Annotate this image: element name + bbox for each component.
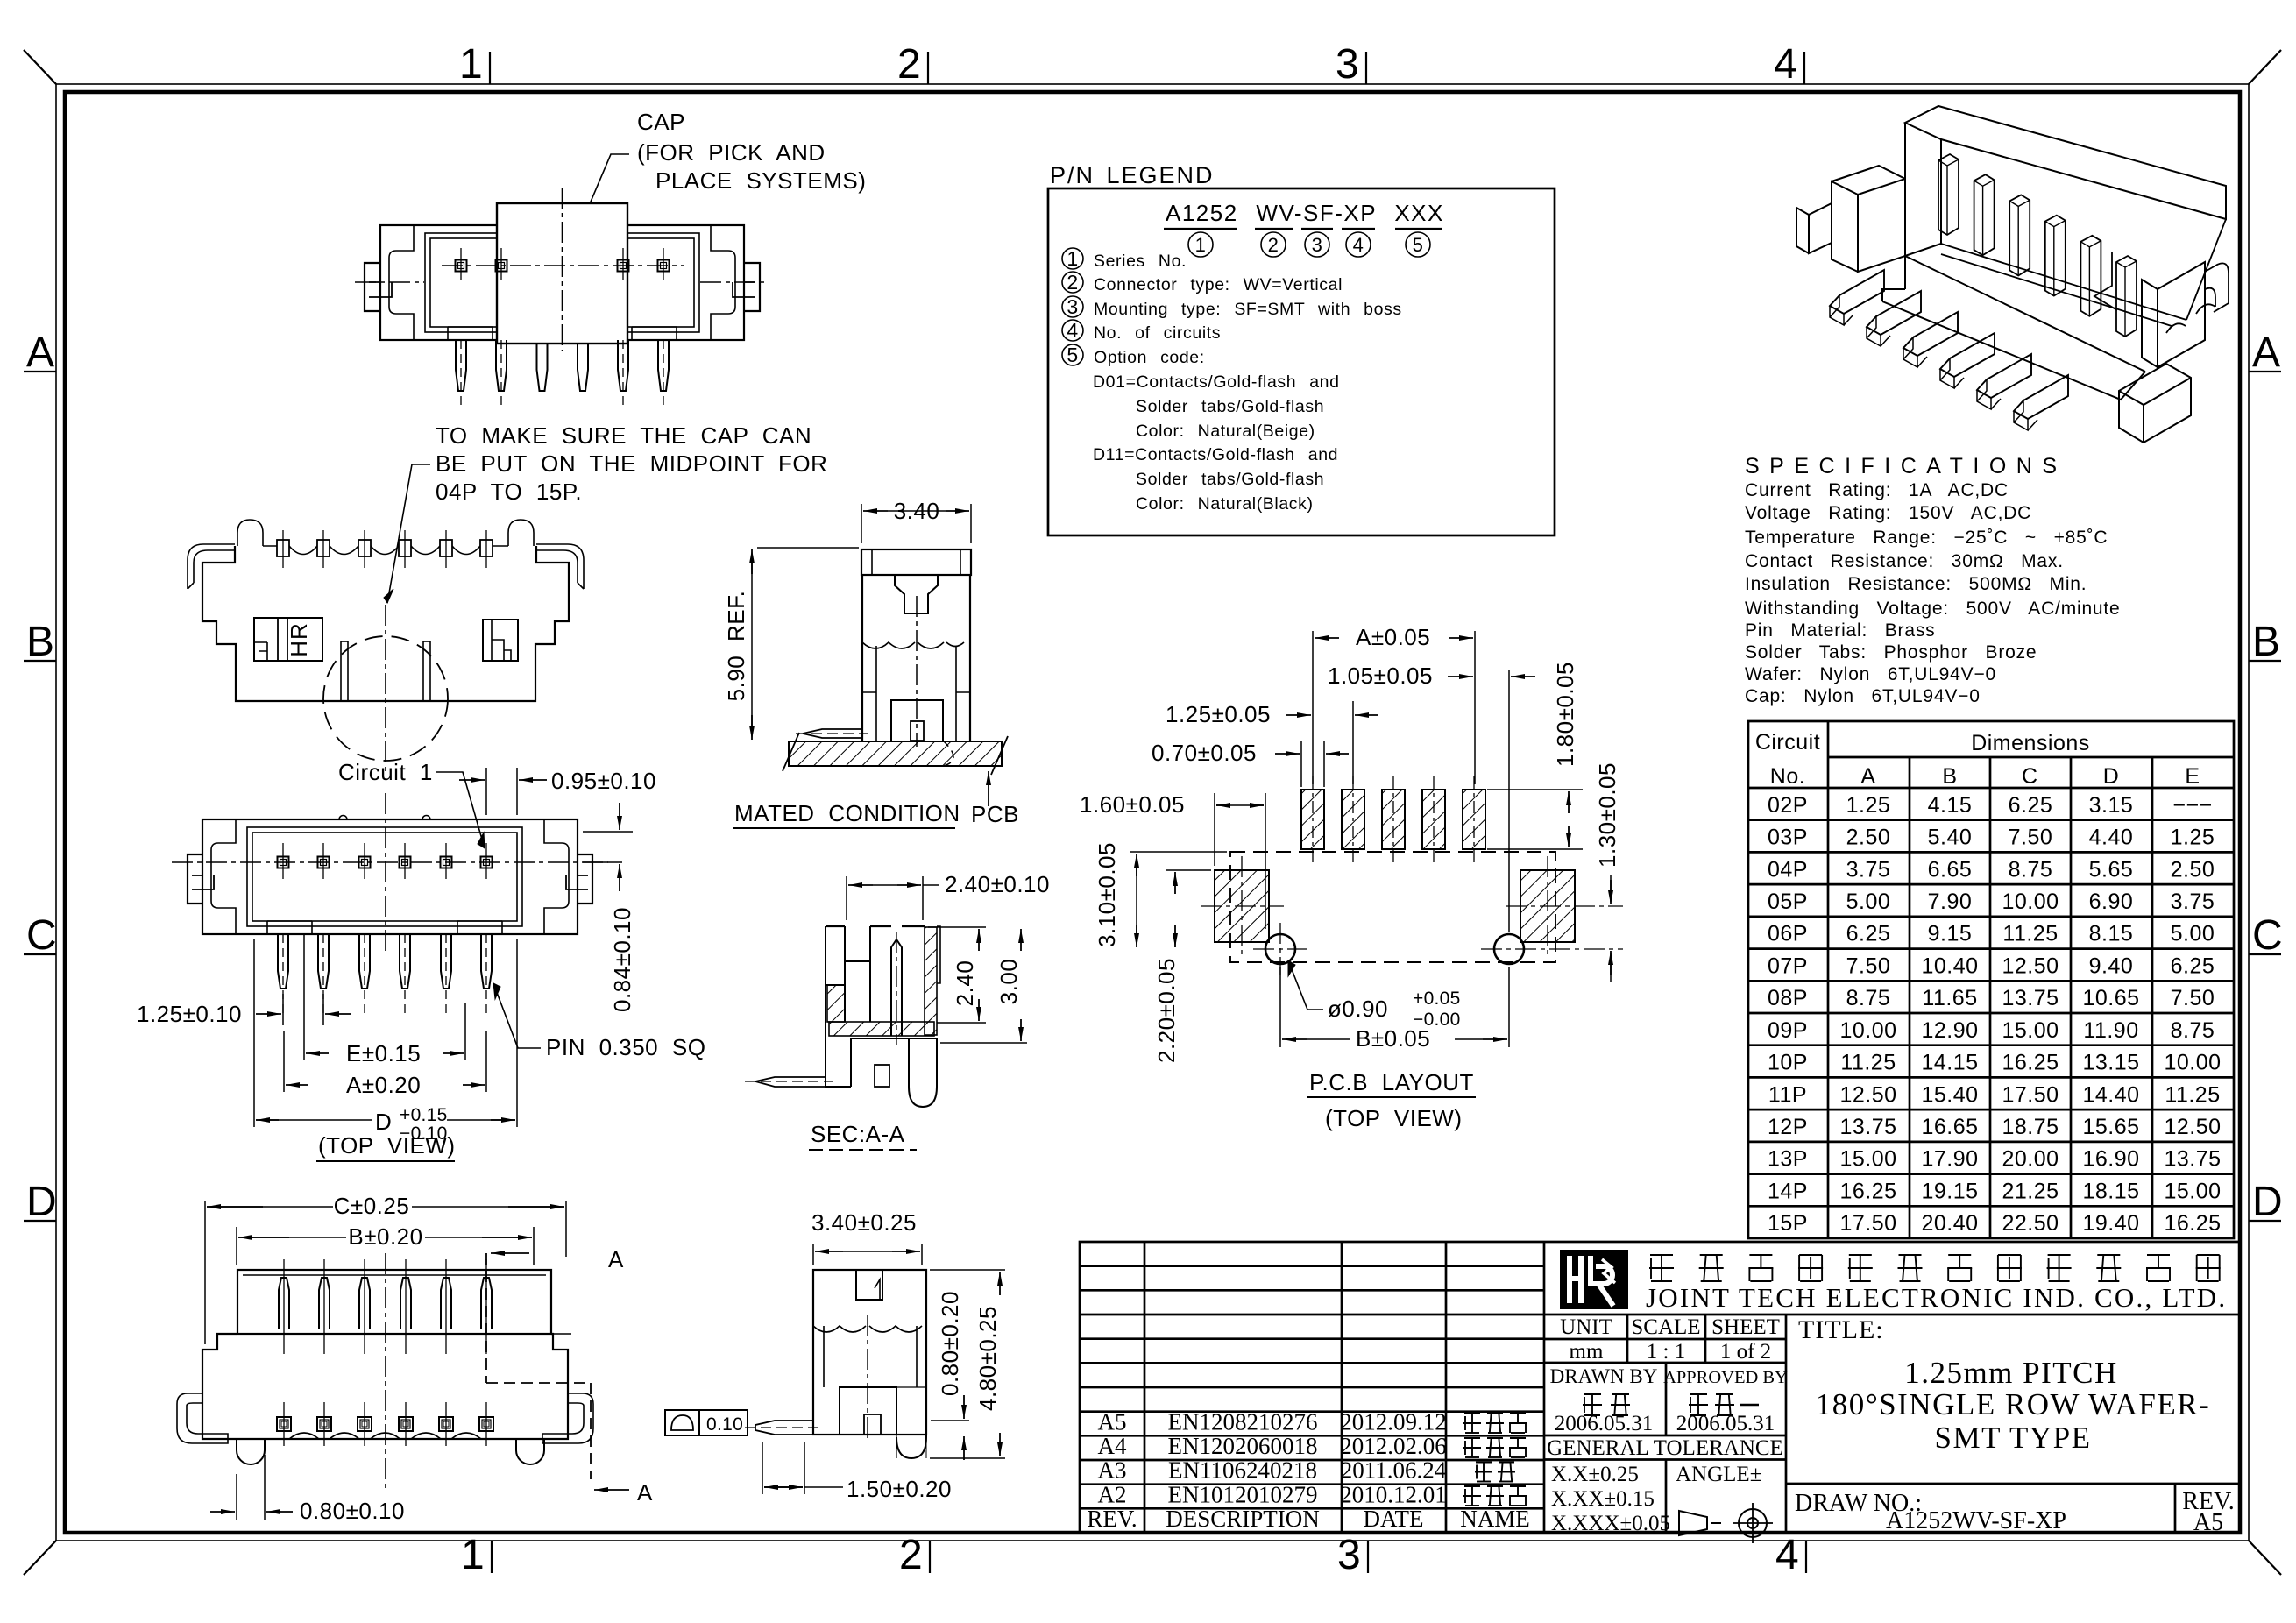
svg-text:6.90: 6.90 — [2089, 889, 2134, 914]
side body — [813, 1270, 926, 1435]
svg-text:D: D — [2252, 1179, 2283, 1225]
svg-text:C: C — [2022, 764, 2038, 789]
svg-text:1.60±0.05: 1.60±0.05 — [1080, 791, 1185, 818]
svg-text:3.75: 3.75 — [1846, 857, 1891, 882]
pcb bosses — [1215, 870, 1269, 942]
END-DRAWINGS — [1745, 454, 2121, 706]
svg-text:(TOP VIEW): (TOP VIEW) — [1325, 1105, 1463, 1131]
zone tick B right — [2249, 660, 2281, 662]
svg-text:0.10: 0.10 — [706, 1414, 743, 1435]
svg-text:C±0.25: C±0.25 — [334, 1193, 410, 1219]
drawn by approved by — [1665, 1363, 1668, 1435]
svg-text:CAP: CAP — [637, 109, 685, 135]
flatness callout — [665, 1410, 748, 1435]
bottom view centerline — [385, 1253, 386, 1490]
svg-text:1.30±0.05: 1.30±0.05 — [1594, 762, 1620, 868]
detail circle dashed — [323, 636, 448, 761]
svg-text:Voltage Rating: 150V AC,DC: Voltage Rating: 150V AC,DC — [1745, 503, 2031, 523]
sec hatched left wall — [827, 985, 845, 1022]
section A-A marks — [491, 1252, 529, 1254]
svg-text:1.25mm PITCH: 1.25mm PITCH — [1904, 1356, 2118, 1390]
zone tick D left — [24, 1220, 56, 1222]
svg-text:X.XX±0.15: X.XX±0.15 — [1551, 1487, 1655, 1511]
svg-text:16.25: 16.25 — [1839, 1179, 1896, 1203]
svg-text:DATE: DATE — [1364, 1506, 1424, 1532]
svg-text:10.00: 10.00 — [2164, 1051, 2221, 1075]
side left tab — [755, 1421, 813, 1435]
svg-text:Series No.: Series No. — [1094, 252, 1187, 271]
svg-text:DESCRIPTION: DESCRIPTION — [1166, 1506, 1320, 1532]
svg-text:11.90: 11.90 — [2083, 1018, 2138, 1043]
svg-text:1.80±0.05: 1.80±0.05 — [1552, 662, 1578, 767]
svg-text:4.15: 4.15 — [1928, 793, 1973, 818]
svg-text:05P: 05P — [1768, 889, 1808, 914]
iso right clip slab — [2142, 262, 2205, 367]
svg-text:5.65: 5.65 — [2089, 857, 2134, 882]
svg-text:X.X±0.25: X.X±0.25 — [1551, 1463, 1639, 1486]
svg-text:10.65: 10.65 — [2082, 986, 2139, 1010]
circled index 3 — [1305, 232, 1329, 257]
svg-text:Connector type: WV=Vertical: Connector type: WV=Vertical — [1094, 275, 1343, 294]
sec hatched right wall — [925, 927, 937, 1035]
svg-text:14.15: 14.15 — [1921, 1051, 1978, 1075]
svg-text:Circuit 1: Circuit 1 — [338, 759, 433, 785]
corner trim mark bottom-right — [2249, 1541, 2281, 1575]
svg-text:+0.15: +0.15 — [400, 1105, 448, 1125]
svg-text:15.00: 15.00 — [2164, 1179, 2221, 1203]
svg-text:X.XXX±0.05: X.XXX±0.05 — [1551, 1512, 1670, 1535]
svg-text:1.25±0.05: 1.25±0.05 — [1166, 701, 1271, 727]
svg-text:12.50: 12.50 — [2002, 953, 2059, 978]
zone tick 3 top — [1365, 52, 1367, 84]
svg-text:mm: mm — [1570, 1340, 1604, 1364]
svg-text:10.40: 10.40 — [1921, 953, 1978, 978]
mated cap — [861, 549, 971, 575]
dimensions table row lines and data — [1748, 788, 2234, 1236]
svg-text:Insulation Resistance: 500MΩ M: Insulation Resistance: 500MΩ Min. — [1745, 574, 2087, 594]
svg-text:2: 2 — [1067, 271, 1078, 294]
cap rectangle — [497, 203, 627, 344]
iso mid step — [2094, 252, 2117, 310]
iso pins — [1938, 154, 1959, 235]
svg-text:2: 2 — [899, 1532, 923, 1578]
svg-text:GENERAL TOLERANCE: GENERAL TOLERANCE — [1547, 1436, 1783, 1460]
title block outline — [1080, 1242, 2240, 1533]
front body outline — [202, 546, 569, 701]
svg-text:PIN 0.350 SQ: PIN 0.350 SQ — [546, 1034, 705, 1060]
svg-text:2011.06.24: 2011.06.24 — [1341, 1457, 1447, 1484]
boss slots — [341, 641, 348, 701]
top bumps — [237, 520, 263, 546]
svg-text:2006.05.31: 2006.05.31 — [1555, 1412, 1654, 1435]
svg-text:2.40: 2.40 — [952, 960, 978, 1007]
svg-text:16.90: 16.90 — [2082, 1147, 2139, 1172]
svg-text:15.00: 15.00 — [2002, 1018, 2059, 1043]
svg-text:B±0.05: B±0.05 — [1356, 1025, 1430, 1052]
zone tick 2 bottom — [929, 1541, 931, 1573]
svg-text:1 : 1: 1 : 1 — [1647, 1340, 1685, 1364]
company band bottom line — [1544, 1314, 2240, 1316]
svg-text:1: 1 — [1067, 247, 1078, 270]
svg-text:A4: A4 — [1098, 1433, 1127, 1459]
svg-text:15P: 15P — [1768, 1211, 1808, 1236]
svg-text:22.50: 22.50 — [2002, 1211, 2059, 1236]
dimensions table column divider D-E — [2151, 757, 2154, 1238]
zone tick 1 bottom — [491, 1541, 493, 1573]
svg-text:13.75: 13.75 — [2002, 986, 2059, 1010]
svg-text:5: 5 — [1067, 344, 1078, 366]
iso front low wall — [1882, 256, 2145, 400]
svg-text:04P TO 15P.: 04P TO 15P. — [436, 478, 582, 505]
svg-text:EN1012010279: EN1012010279 — [1168, 1482, 1318, 1508]
svg-text:MATED CONDITION: MATED CONDITION — [734, 800, 960, 826]
tolerance values — [1665, 1460, 1668, 1534]
revision table row lines — [1080, 1265, 1544, 1267]
svg-text:Pin Material: Brass: Pin Material: Brass — [1745, 620, 1935, 641]
svg-text:Contact Resistance: 30mΩ Max.: Contact Resistance: 30mΩ Max. — [1745, 551, 2064, 571]
svg-text:3.00: 3.00 — [996, 959, 1022, 1005]
svg-text:10.00: 10.00 — [1839, 1018, 1896, 1043]
svg-text:1.05±0.05: 1.05±0.05 — [1328, 663, 1433, 689]
svg-text:8.75: 8.75 — [1846, 986, 1891, 1010]
svg-text:11.25: 11.25 — [1840, 1051, 1896, 1075]
note leader line — [387, 464, 430, 603]
dimensions table header split line — [1828, 756, 2234, 759]
svg-text:6.25: 6.25 — [2009, 793, 2053, 818]
svg-text:19.40: 19.40 — [2082, 1211, 2139, 1236]
svg-text:15.40: 15.40 — [1921, 1082, 1978, 1107]
svg-text:A: A — [637, 1479, 653, 1506]
svg-text:06P: 06P — [1768, 922, 1808, 946]
projection angle symbols — [1679, 1503, 1773, 1543]
svg-text:16.25: 16.25 — [2164, 1211, 2221, 1236]
svg-text:APPROVED BY: APPROVED BY — [1663, 1368, 1788, 1387]
svg-text:SHEET: SHEET — [1711, 1315, 1780, 1339]
svg-text:2.20±0.05: 2.20±0.05 — [1153, 958, 1180, 1063]
side wavy — [813, 1326, 922, 1332]
legend items — [1062, 248, 1083, 269]
svg-text:7.50: 7.50 — [2171, 986, 2215, 1010]
svg-text:EN1208210276: EN1208210276 — [1168, 1409, 1318, 1435]
svg-text:16.65: 16.65 — [1921, 1115, 1978, 1139]
svg-text:A5: A5 — [1098, 1409, 1127, 1435]
unit scale sheet cells — [1626, 1315, 1629, 1363]
iso left small tab — [1796, 203, 1832, 253]
svg-text:20.40: 20.40 — [1921, 1211, 1978, 1236]
svg-text:1: 1 — [1195, 234, 1207, 256]
mated centerline — [916, 596, 918, 747]
svg-text:C: C — [2252, 912, 2283, 959]
svg-text:2012.09.12: 2012.09.12 — [1340, 1409, 1447, 1435]
zone tick 3 bottom — [1367, 1541, 1369, 1573]
svg-text:4: 4 — [1775, 1532, 1799, 1578]
corner trim mark bottom-left — [24, 1541, 56, 1575]
revision names — [1464, 1413, 1480, 1414]
svg-text:0.80±0.20: 0.80±0.20 — [937, 1291, 963, 1396]
svg-text:0.70±0.05: 0.70±0.05 — [1152, 740, 1257, 766]
svg-text:HR: HR — [286, 622, 312, 657]
svg-text:A: A — [26, 330, 54, 376]
inner wall double line — [425, 233, 699, 332]
bottom contacts — [277, 1417, 291, 1431]
svg-text:3.40±0.25: 3.40±0.25 — [811, 1209, 917, 1236]
side foot — [896, 1387, 926, 1458]
svg-text:11.65: 11.65 — [1922, 986, 1977, 1010]
svg-text:5: 5 — [1413, 234, 1424, 256]
svg-text:A1252 WV-SF-XP XXX: A1252 WV-SF-XP XXX — [1166, 200, 1444, 226]
svg-text:PCB: PCB — [971, 801, 1019, 827]
svg-text:17.50: 17.50 — [1839, 1211, 1896, 1236]
svg-text:3.15: 3.15 — [2089, 793, 2134, 818]
front view centerline — [385, 605, 386, 771]
side centerline — [867, 1315, 868, 1442]
svg-text:EN1106240218: EN1106240218 — [1168, 1457, 1317, 1484]
top edge pin tabs — [277, 540, 289, 556]
svg-text:6.25: 6.25 — [1846, 922, 1891, 946]
svg-text:10.00: 10.00 — [2002, 889, 2059, 914]
svg-text:0.84±0.10: 0.84±0.10 — [609, 907, 635, 1012]
svg-text:Solder tabs/Gold-flash: Solder tabs/Gold-flash — [1136, 470, 1324, 489]
drawn by name — [1584, 1393, 1601, 1395]
svg-text:A1252WV-SF-XP: A1252WV-SF-XP — [1886, 1507, 2066, 1534]
svg-text:1.25±0.10: 1.25±0.10 — [137, 1001, 242, 1027]
svg-text:13.15: 13.15 — [2082, 1051, 2139, 1075]
svg-text:Color: Natural(Beige): Color: Natural(Beige) — [1136, 422, 1315, 441]
svg-text:9.40: 9.40 — [2089, 953, 2134, 978]
svg-text:4: 4 — [1774, 41, 1797, 88]
svg-text:17.50: 17.50 — [2002, 1082, 2059, 1107]
circled index 1 — [1188, 232, 1213, 257]
svg-text:11.25: 11.25 — [2002, 922, 2058, 946]
svg-text:03P: 03P — [1768, 826, 1808, 850]
svg-text:P.C.B LAYOUT: P.C.B LAYOUT — [1309, 1069, 1474, 1095]
svg-text:Current Rating: 1A AC,DC: Current Rating: 1A AC,DC — [1745, 480, 2009, 500]
svg-text:(FOR PICK AND: (FOR PICK AND — [637, 139, 826, 166]
svg-text:Temperature Range: −25˚C ~ +85: Temperature Range: −25˚C ~ +85˚C — [1745, 528, 2108, 548]
svg-text:TO MAKE SURE THE CAP CAN: TO MAKE SURE THE CAP CAN — [436, 422, 811, 449]
right small box — [483, 620, 518, 661]
svg-text:SPECIFICATIONS: SPECIFICATIONS — [1745, 454, 2067, 478]
svg-text:3.75: 3.75 — [2171, 889, 2215, 914]
mated solder tab left — [803, 729, 862, 738]
circled index 2 — [1261, 232, 1286, 257]
svg-text:09P: 09P — [1768, 1018, 1808, 1043]
P/N legend box — [1048, 188, 1555, 535]
svg-text:2: 2 — [1268, 234, 1279, 256]
svg-text:B: B — [1942, 764, 1957, 789]
zone tick A left — [24, 371, 56, 372]
svg-text:NAME: NAME — [1460, 1506, 1530, 1532]
svg-text:3: 3 — [1312, 234, 1323, 256]
svg-text:B: B — [2252, 619, 2280, 665]
svg-text:A3: A3 — [1098, 1457, 1127, 1484]
svg-text:5.00: 5.00 — [2171, 922, 2215, 946]
svg-text:3.10±0.05: 3.10±0.05 — [1094, 842, 1120, 947]
svg-text:E: E — [2185, 764, 2200, 789]
svg-text:REV.: REV. — [1087, 1506, 1137, 1532]
iso back wall top band — [1905, 106, 2226, 219]
svg-text:21.25: 21.25 — [2002, 1179, 2059, 1203]
svg-text:D01=Contacts/Gold-flash and: D01=Contacts/Gold-flash and — [1093, 372, 1340, 392]
svg-text:B±0.20: B±0.20 — [348, 1223, 422, 1250]
zone tick 4 bottom — [1805, 1541, 1807, 1573]
zone tick 4 top — [1803, 52, 1805, 84]
svg-text:P/N LEGEND: P/N LEGEND — [1050, 162, 1215, 188]
svg-text:UNIT: UNIT — [1560, 1315, 1612, 1339]
corner trim mark top-left — [24, 50, 56, 84]
dimensions table column divider C-D — [2070, 757, 2073, 1238]
svg-text:14P: 14P — [1768, 1179, 1808, 1203]
bottom view body sides — [202, 1334, 568, 1439]
svg-text:02P: 02P — [1768, 793, 1808, 818]
cap leader line — [566, 154, 629, 259]
svg-text:D11=Contacts/Gold-flash and: D11=Contacts/Gold-flash and — [1093, 445, 1338, 464]
corner trim mark top-right — [2249, 50, 2281, 84]
top view inner wall — [247, 827, 522, 926]
svg-text:Color: Natural(Black): Color: Natural(Black) — [1136, 494, 1314, 514]
svg-text:SCALE: SCALE — [1631, 1315, 1700, 1339]
top view centerlines — [172, 861, 608, 863]
svg-text:PLACE SYSTEMS): PLACE SYSTEMS) — [655, 167, 866, 194]
sec body outline — [826, 925, 925, 927]
svg-text:13P: 13P — [1768, 1147, 1808, 1172]
svg-text:Solder Tabs: Phosphor Broze: Solder Tabs: Phosphor Broze — [1745, 642, 2037, 663]
svg-text:D: D — [2103, 764, 2120, 789]
svg-text:4: 4 — [1353, 234, 1364, 256]
svg-text:JOINT TECH ELECTRONIC IND. CO.: JOINT TECH ELECTRONIC IND. CO., LTD. — [1646, 1282, 2227, 1313]
svg-text:Wafer: Nylon 6T,UL94V−0: Wafer: Nylon 6T,UL94V−0 — [1745, 664, 1996, 684]
svg-text:A±0.05: A±0.05 — [1356, 624, 1430, 650]
svg-text:7.50: 7.50 — [1846, 953, 1891, 978]
svg-text:6.25: 6.25 — [2171, 953, 2215, 978]
company chinese name — [1650, 1254, 1673, 1256]
mated bottom block — [891, 700, 943, 741]
bottom view inner rect — [237, 1270, 551, 1334]
sec hatched bottom — [829, 1022, 934, 1036]
svg-text:3: 3 — [1337, 1532, 1361, 1578]
left clip — [389, 225, 414, 340]
iso right foot — [2119, 364, 2191, 443]
HR marking box — [254, 618, 322, 661]
bottom view pins up — [279, 1278, 289, 1329]
svg-text:No. of circuits: No. of circuits — [1094, 323, 1221, 343]
svg-text:Solder tabs/Gold-flash: Solder tabs/Gold-flash — [1136, 397, 1324, 416]
right J hook — [536, 544, 584, 589]
contacts — [456, 260, 467, 272]
zone tick 1 top — [489, 52, 491, 84]
iso clip notches — [2166, 304, 2215, 333]
svg-text:8.15: 8.15 — [2089, 922, 2134, 946]
svg-text:17.90: 17.90 — [1921, 1147, 1978, 1172]
svg-text:TITLE:: TITLE: — [1798, 1315, 1884, 1344]
svg-text:B: B — [26, 619, 54, 665]
main centerline horizontal — [442, 265, 684, 266]
svg-text:4.40: 4.40 — [2089, 826, 2134, 850]
sec foot — [909, 1038, 937, 1107]
top view pins — [278, 934, 288, 989]
svg-text:7.50: 7.50 — [2009, 826, 2053, 850]
svg-text:13.75: 13.75 — [2164, 1147, 2221, 1172]
svg-text:EN1202060018: EN1202060018 — [1168, 1433, 1318, 1459]
pcb pads — [1301, 790, 1324, 849]
svg-text:3: 3 — [1067, 295, 1078, 318]
dimensions table outer frame — [1748, 721, 2234, 1238]
svg-text:BE PUT ON THE MIDPOINT FOR: BE PUT ON THE MIDPOINT FOR — [436, 450, 827, 477]
svg-text:No.: No. — [1770, 764, 1805, 789]
side top notch — [856, 1270, 882, 1300]
svg-text:6.65: 6.65 — [1928, 857, 1973, 882]
wafer body outline — [380, 225, 744, 340]
general tolerance cell — [1544, 1435, 1786, 1437]
bottom bosses — [237, 1439, 265, 1464]
zone tick B left — [24, 660, 56, 662]
pcb holes — [1265, 934, 1295, 964]
sec pin — [891, 939, 902, 1036]
pcb hatched — [789, 741, 1002, 766]
iso right clip hook — [2205, 263, 2229, 312]
svg-text:A: A — [2252, 330, 2280, 376]
svg-text:2.40±0.10: 2.40±0.10 — [945, 871, 1050, 897]
svg-text:0.80±0.10: 0.80±0.10 — [300, 1498, 405, 1524]
svg-text:20.00: 20.00 — [2002, 1147, 2059, 1172]
svg-text:2.50: 2.50 — [1846, 826, 1891, 850]
bottom view scallops — [289, 1433, 319, 1439]
svg-text:C: C — [26, 912, 57, 959]
svg-text:−−−: −−− — [2172, 793, 2212, 818]
top view body — [202, 819, 578, 934]
sec left tab — [755, 1077, 826, 1087]
mated body — [862, 575, 970, 741]
svg-text:+0.05: +0.05 — [1413, 989, 1461, 1009]
right boss — [516, 1439, 544, 1464]
cap centerline vertical — [562, 188, 563, 351]
svg-text:5.90 REF.: 5.90 REF. — [723, 591, 749, 702]
top view left clip — [211, 819, 236, 934]
svg-text:1.25: 1.25 — [1846, 793, 1891, 818]
top view contacts — [278, 857, 289, 868]
svg-text:1.25: 1.25 — [2171, 826, 2215, 850]
svg-text:A±0.20: A±0.20 — [346, 1072, 421, 1098]
svg-text:5.00: 5.00 — [1846, 889, 1891, 914]
zone tick 2 top — [927, 52, 929, 84]
pins — [456, 340, 466, 391]
svg-text:2012.02.06: 2012.02.06 — [1340, 1433, 1447, 1459]
zone tick C right — [2249, 953, 2281, 955]
svg-text:04P: 04P — [1768, 857, 1808, 882]
bottom J hooks — [177, 1393, 228, 1443]
zone tick C left — [24, 953, 56, 955]
svg-text:Withstanding Voltage: 500V AC/: Withstanding Voltage: 500V AC/minute — [1745, 599, 2121, 619]
svg-text:SMT TYPE: SMT TYPE — [1935, 1421, 2092, 1455]
svg-text:Dimensions: Dimensions — [1971, 731, 2090, 755]
svg-text:11P: 11P — [1768, 1082, 1807, 1107]
svg-text:0.95±0.10: 0.95±0.10 — [551, 768, 656, 794]
circled index 5 — [1406, 232, 1430, 257]
zone tick A right — [2249, 371, 2281, 372]
dimensions table column divider B-C — [1989, 757, 1992, 1238]
svg-text:E±0.15: E±0.15 — [346, 1040, 421, 1067]
side bottom block — [840, 1387, 896, 1435]
svg-text:A5: A5 — [2193, 1509, 2223, 1536]
svg-text:9.15: 9.15 — [1928, 922, 1973, 946]
svg-text:4.80±0.25: 4.80±0.25 — [974, 1306, 1001, 1411]
svg-text:(TOP VIEW): (TOP VIEW) — [318, 1132, 456, 1159]
zone tick D right — [2249, 1220, 2281, 1222]
circled index 4 — [1346, 232, 1371, 257]
svg-text:ø0.90: ø0.90 — [1328, 996, 1388, 1022]
svg-text:3: 3 — [1336, 41, 1359, 88]
revision table column lines — [1144, 1242, 1146, 1533]
